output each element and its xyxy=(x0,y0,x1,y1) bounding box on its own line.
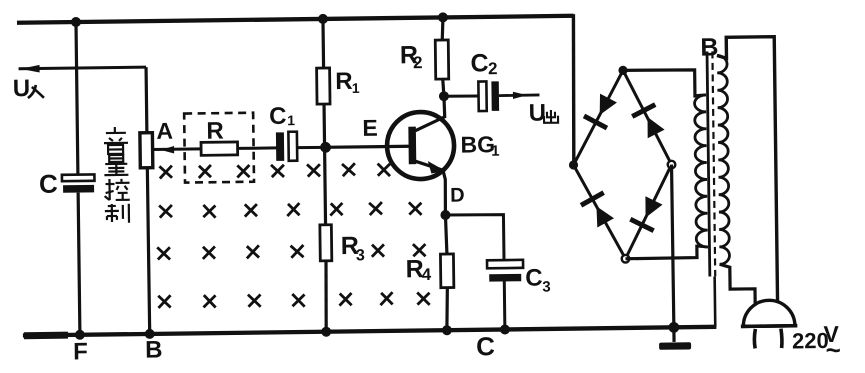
svg-text:BG: BG xyxy=(460,131,495,157)
svg-text:B: B xyxy=(700,33,718,61)
transformer secondary winding (left coil) xyxy=(694,95,707,247)
svg-text:B: B xyxy=(145,336,163,363)
svg-text:1: 1 xyxy=(352,80,360,96)
dashed box around R xyxy=(184,113,254,183)
wire U-in horizontal xyxy=(19,67,146,69)
svg-text:1: 1 xyxy=(491,143,500,160)
ground symbol xyxy=(659,327,691,350)
capacitor C2 xyxy=(478,81,499,111)
node bridge top xyxy=(618,66,627,75)
wiper arrow (points left into pot) xyxy=(153,147,201,151)
svg-text:C: C xyxy=(470,49,488,77)
node: bottom rail junction (R4) xyxy=(442,325,452,335)
svg-text:3: 3 xyxy=(356,247,365,264)
wire pot branch upper xyxy=(144,67,148,133)
transistor BG1 xyxy=(386,96,454,215)
wire R2 upper xyxy=(442,17,443,40)
svg-text:R: R xyxy=(335,68,353,95)
wire D to R4 xyxy=(445,215,446,254)
wire bridge top node to secondary top xyxy=(623,69,695,98)
resistor R1 xyxy=(317,68,330,104)
resistor R xyxy=(201,142,238,155)
wire base (E) xyxy=(325,146,410,147)
svg-text:D: D xyxy=(450,185,465,207)
resistor R3 xyxy=(320,225,332,261)
wire D to C3 branch xyxy=(445,214,504,261)
wire vertical input branch lower xyxy=(78,193,80,335)
svg-text:F: F xyxy=(73,338,88,365)
svg-text:3: 3 xyxy=(542,278,551,295)
node: R2/C2/collector junction xyxy=(439,91,449,101)
wire bottom rail thick left stub xyxy=(24,332,68,340)
label volume control (Chinese vertical) xyxy=(104,127,130,223)
wire top rail xyxy=(17,16,573,23)
svg-text:4: 4 xyxy=(422,265,432,284)
potentiometer (volume control) body xyxy=(140,133,153,168)
plug prong left xyxy=(754,329,755,349)
label glyph chu (out) xyxy=(544,110,558,123)
wire bridge arm bottom-right xyxy=(624,165,672,259)
wire junction to C2 xyxy=(444,94,479,98)
plug dome xyxy=(743,300,795,326)
node bridge left xyxy=(569,160,578,169)
node: top rail junction (input branch) xyxy=(71,17,81,27)
diode D2 (top-right) xyxy=(632,104,665,138)
svg-text:C: C xyxy=(269,103,287,130)
label glyph ru (in) xyxy=(28,85,44,98)
wire pot branch lower xyxy=(147,168,149,334)
diode D4 (bottom-right) xyxy=(630,196,663,231)
transformer primary winding (right coil) xyxy=(717,55,730,264)
wire bridge arm bottom-left xyxy=(574,164,626,259)
node: top rail junction (R2) xyxy=(438,12,448,22)
node bridge right (ring) xyxy=(668,161,676,169)
capacitor C3 xyxy=(487,260,523,282)
transformer core xyxy=(707,51,716,326)
node: bottom rail junction (R3) xyxy=(321,327,331,337)
wire top rail corner down to bridge left node xyxy=(572,14,575,165)
diode D3 (bottom-left) xyxy=(581,192,614,227)
wire R3 to bottom rail xyxy=(325,261,327,332)
wire junction down to R3 xyxy=(323,147,327,224)
node F junction xyxy=(75,330,85,340)
svg-text:C: C xyxy=(39,169,58,199)
wire C3 to bottom rail xyxy=(503,281,507,329)
wire R2 to collector junction xyxy=(443,79,444,96)
wire bridge bottom node to secondary bottom xyxy=(625,245,697,259)
svg-text:C: C xyxy=(476,331,495,361)
node D junction xyxy=(440,210,450,220)
wire R to C1 xyxy=(238,146,277,149)
wire R4 to bottom rail xyxy=(446,288,448,331)
svg-text:1: 1 xyxy=(287,112,295,128)
wire R1 branch upper xyxy=(321,19,325,68)
wire primary top lead xyxy=(717,37,778,303)
wire C1 to junction xyxy=(297,146,324,149)
node: top rail junction (R1 branch) xyxy=(318,14,328,24)
svg-text:2: 2 xyxy=(413,53,423,72)
resistor R4 xyxy=(440,254,453,288)
node: bottom rail junction (C3) xyxy=(500,324,510,334)
wire bridge arm top-right xyxy=(623,70,671,165)
wire bridge right node to ground rail xyxy=(672,165,674,328)
diode D1 (top-left) xyxy=(584,93,618,128)
svg-text:U: U xyxy=(13,75,31,102)
svg-text:R: R xyxy=(206,118,224,145)
svg-text:A: A xyxy=(156,118,173,144)
svg-text:E: E xyxy=(362,115,378,141)
wire R1 to junction xyxy=(322,104,326,147)
node: bottom rail junction (ground) xyxy=(668,322,679,333)
wire bridge arm top-left xyxy=(572,70,624,165)
arrow U-in (points left) xyxy=(21,65,40,73)
svg-text:~: ~ xyxy=(825,335,841,365)
wire primary bottom lead xyxy=(720,264,756,306)
svg-text:2: 2 xyxy=(488,59,498,78)
capacitor C xyxy=(62,174,95,192)
node B junction (bottom) xyxy=(145,329,155,339)
capacitor C1 xyxy=(276,132,297,161)
node bridge bottom (ring) xyxy=(622,255,630,263)
node: C1/R1/base junction xyxy=(320,142,331,153)
plug base line xyxy=(741,324,797,328)
resistor R2 xyxy=(435,40,448,79)
chassis x marks xyxy=(156,162,429,308)
svg-text:C: C xyxy=(525,265,543,292)
wire vertical input branch upper xyxy=(76,22,78,175)
wire C2 to output + arrow U-out xyxy=(499,94,539,98)
plug prong right xyxy=(781,329,782,349)
wire bottom rail xyxy=(23,327,716,336)
